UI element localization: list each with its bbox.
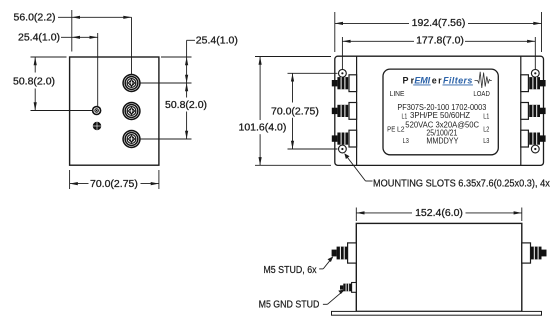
line stud L3 left	[332, 130, 357, 147]
line stud L1 left	[332, 75, 357, 92]
svg-text:L1: L1	[483, 112, 489, 121]
svg-text:MOUNTING SLOTS 6.35x7.6(0.25x0: MOUNTING SLOTS 6.35x7.6(0.25x0.3), 4x	[373, 178, 550, 189]
svg-text:MMDDYY: MMDDYY	[426, 136, 459, 145]
M5 stud left	[332, 243, 357, 263]
terminal stud A (top)	[122, 74, 140, 92]
load stud L1 right	[521, 75, 546, 92]
mounting slot top-right	[531, 69, 539, 77]
svg-text:EMI: EMI	[414, 75, 430, 85]
svg-text:177.8(7.0): 177.8(7.0)	[416, 35, 464, 47]
load stud L2 right	[521, 103, 546, 120]
svg-text:25.4(1.0): 25.4(1.0)	[18, 32, 60, 44]
svg-text:56.0(2.2): 56.0(2.2)	[14, 11, 56, 23]
dimension 56.0(2.2)	[58, 10, 132, 75]
mounting slot bottom-right	[531, 145, 539, 153]
svg-text:3PH/PE 50/60HZ: 3PH/PE 50/60HZ	[410, 111, 470, 120]
svg-text:LOAD: LOAD	[473, 89, 490, 98]
M5 stud leader	[319, 257, 332, 269]
terminal stud B (middle)	[122, 102, 140, 120]
M5 gnd stud leader	[323, 290, 344, 304]
svg-text:LINE: LINE	[390, 89, 405, 98]
svg-text:101.6(4.0): 101.6(4.0)	[239, 121, 287, 133]
svg-text:L3: L3	[483, 136, 489, 145]
terminal stud C (bottom)	[122, 130, 140, 148]
load stud L3 right	[521, 130, 546, 147]
svg-text:L2: L2	[483, 124, 489, 133]
ground stud (small)	[92, 106, 102, 116]
dimension 192.4(7.56)	[335, 12, 542, 52]
svg-text:152.4(6.0): 152.4(6.0)	[415, 207, 463, 219]
locator dot	[93, 122, 101, 130]
svg-text:L3: L3	[403, 136, 409, 145]
dimension 25.4(1.0) left	[61, 33, 98, 106]
logo waveform	[475, 72, 492, 88]
dimension 177.8(7.0)	[342, 37, 535, 69]
svg-text:50.8(2.0): 50.8(2.0)	[13, 76, 55, 88]
mounting slots leader	[345, 155, 372, 182]
cover left edge	[356, 56, 358, 165]
svg-text:M5 GND STUD: M5 GND STUD	[259, 300, 320, 311]
dimension 50.8(2.0) left	[31, 57, 93, 111]
svg-text:PE: PE	[387, 124, 395, 133]
svg-text:70.0(2.75): 70.0(2.75)	[90, 178, 138, 190]
product label outline	[383, 69, 498, 155]
dimension 70.0(2.75) bottom	[70, 170, 159, 189]
svg-text:L2: L2	[397, 124, 405, 133]
M5 stud right	[522, 243, 547, 263]
svg-text:50.8(2.0): 50.8(2.0)	[165, 99, 207, 111]
dimension 25.4(1.0) right (leader elbow)	[141, 40, 196, 83]
svg-text:192.4(7.56): 192.4(7.56)	[412, 17, 466, 29]
svg-text:L1: L1	[402, 112, 408, 121]
logo PrEMIer Filters	[403, 75, 473, 85]
dimension 70.0(2.75) top view	[288, 73, 338, 149]
svg-text:M5 STUD, 6x: M5 STUD, 6x	[263, 265, 316, 276]
svg-text:70.0(2.75): 70.0(2.75)	[271, 106, 319, 118]
cover right edge	[520, 56, 522, 165]
line stud L2 left	[332, 103, 357, 120]
baseplate flange	[335, 56, 544, 165]
dimension 101.6(4.0)	[255, 57, 331, 166]
svg-text:Filters: Filters	[443, 75, 472, 85]
dimension 50.8(2.0) right	[141, 83, 192, 139]
mounting slot top-left	[339, 69, 347, 77]
dimension 152.4(6.0)	[356, 208, 522, 222]
svg-text:25.4(1.0): 25.4(1.0)	[196, 34, 238, 46]
baseplate lip	[332, 311, 542, 315]
end view body	[70, 57, 159, 165]
M5 ground stud	[340, 283, 356, 293]
mounting slot bottom-left	[339, 145, 347, 153]
side view body	[356, 223, 522, 311]
